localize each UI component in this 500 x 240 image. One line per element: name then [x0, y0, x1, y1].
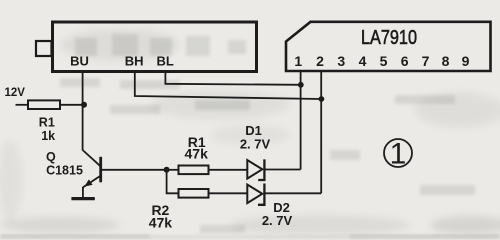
svg-text:Q: Q — [46, 150, 56, 164]
svg-text:6: 6 — [401, 53, 409, 69]
ground — [71, 197, 94, 200]
svg-text:7: 7 — [422, 53, 430, 69]
svg-text:C1815: C1815 — [46, 164, 83, 178]
wire pin2 vertical — [320, 71, 322, 193]
svg-text:2. 7V: 2. 7V — [262, 213, 293, 228]
wire BL — [165, 71, 300, 85]
node BU/R1 junction — [81, 102, 87, 108]
node base junction — [164, 167, 170, 173]
wire BU vertical — [82, 71, 84, 150]
wire emitter stub — [82, 187, 84, 197]
svg-text:BH: BH — [125, 54, 144, 69]
resistor R1 1k — [28, 100, 60, 109]
diode D1 triangle — [247, 160, 262, 179]
svg-text:LA7910: LA7910 — [361, 27, 417, 49]
wire 12V lead — [16, 104, 29, 106]
transistor Q1 emitter — [83, 176, 101, 188]
transistor Q1 collector — [83, 150, 100, 166]
figure number circle 1 — [384, 138, 412, 171]
svg-text:1: 1 — [390, 138, 407, 171]
op-amp U1 LA7910 box — [286, 22, 491, 71]
resistor R1 47k — [179, 166, 209, 175]
svg-text:BU: BU — [70, 54, 89, 69]
svg-text:47k: 47k — [185, 146, 209, 162]
svg-text:3: 3 — [337, 53, 345, 69]
svg-text:47k: 47k — [149, 215, 173, 231]
wire D2 to pin2 — [264, 192, 321, 194]
wire R1 47k to D1 — [209, 169, 248, 171]
tuner box — [53, 22, 257, 72]
tuner tab — [36, 41, 52, 56]
diode D2 cathode bar — [258, 184, 264, 205]
diode D2 triangle — [247, 185, 262, 204]
svg-text:8: 8 — [442, 53, 450, 69]
svg-text:2. 7V: 2. 7V — [240, 137, 271, 152]
svg-text:12V: 12V — [5, 87, 26, 99]
resistor R2 47k — [179, 189, 209, 198]
diode D1 cathode bar — [258, 159, 264, 180]
svg-text:5: 5 — [380, 53, 388, 69]
wire R2 to D2 — [209, 192, 248, 194]
svg-text:1: 1 — [294, 53, 302, 69]
wire R1 to node — [60, 104, 84, 106]
svg-text:4: 4 — [359, 53, 367, 69]
transistor Q1 emitter arrow — [84, 179, 92, 186]
svg-text:BL: BL — [157, 54, 174, 69]
wire node to R1 47k — [167, 169, 179, 171]
node BL/pin1 junction — [298, 82, 304, 88]
svg-text:9: 9 — [462, 53, 470, 69]
svg-text:R1: R1 — [39, 116, 55, 130]
svg-text:2: 2 — [316, 53, 324, 69]
wire node down to R2 — [167, 170, 179, 194]
wire BH — [135, 71, 321, 99]
wire D1 to pin1 — [264, 169, 300, 171]
wire base rail — [102, 169, 167, 171]
node BH/pin2 junction — [319, 96, 325, 102]
transistor Q1 base bar — [99, 157, 102, 183]
svg-text:1k: 1k — [41, 129, 55, 143]
wire pin1 vertical — [300, 71, 302, 170]
